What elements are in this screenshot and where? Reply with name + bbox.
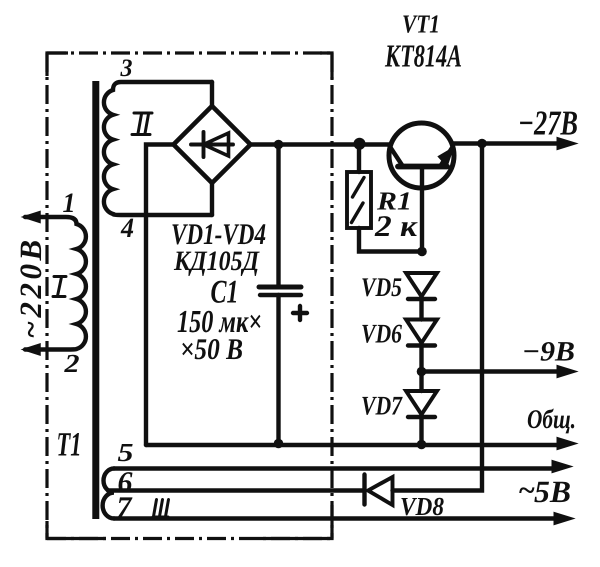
svg-text:1: 1	[63, 188, 76, 219]
svg-text:Т1: Т1	[57, 427, 82, 464]
svg-text:КД105Д: КД105Д	[173, 246, 260, 277]
svg-text:Общ.: Общ.	[527, 404, 576, 434]
svg-text:~220В: ~220В	[13, 236, 48, 338]
svg-text:5: 5	[118, 438, 134, 467]
svg-text:КТ814А: КТ814А	[384, 38, 462, 74]
svg-text:VD6: VD6	[361, 319, 402, 349]
svg-text:2 к: 2 к	[374, 210, 418, 243]
svg-text:5В: 5В	[534, 474, 571, 509]
svg-text:7: 7	[117, 491, 133, 524]
svg-text:4: 4	[120, 213, 134, 244]
svg-text:−9В: −9В	[522, 337, 575, 368]
svg-text:−27В: −27В	[518, 104, 578, 143]
svg-text:~: ~	[518, 474, 535, 507]
svg-text:2: 2	[63, 349, 79, 378]
svg-text:3: 3	[120, 55, 133, 82]
svg-text:VD7: VD7	[361, 391, 403, 421]
svg-text:VD5: VD5	[361, 272, 402, 302]
svg-text:VT1: VT1	[402, 10, 440, 39]
svg-text:VD8: VD8	[400, 492, 444, 521]
svg-text:×50 В: ×50 В	[180, 333, 243, 366]
